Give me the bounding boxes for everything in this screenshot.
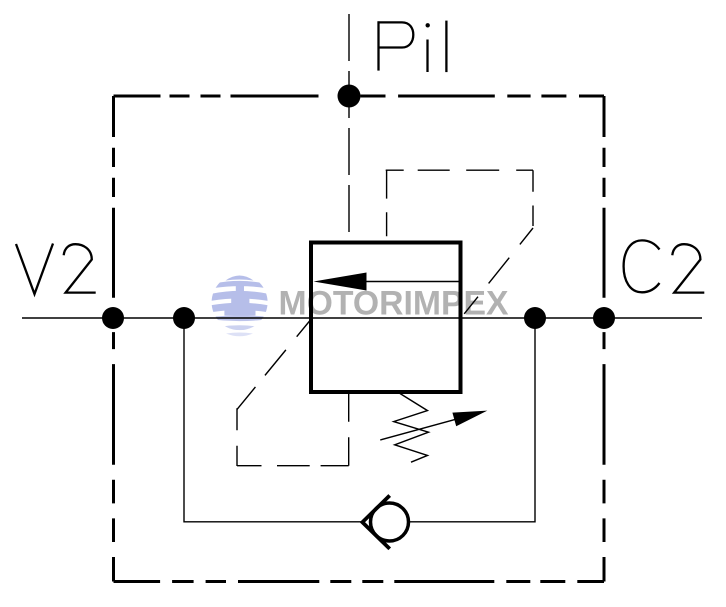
svg-text:MOTORIMPEX: MOTORIMPEX (279, 285, 509, 323)
